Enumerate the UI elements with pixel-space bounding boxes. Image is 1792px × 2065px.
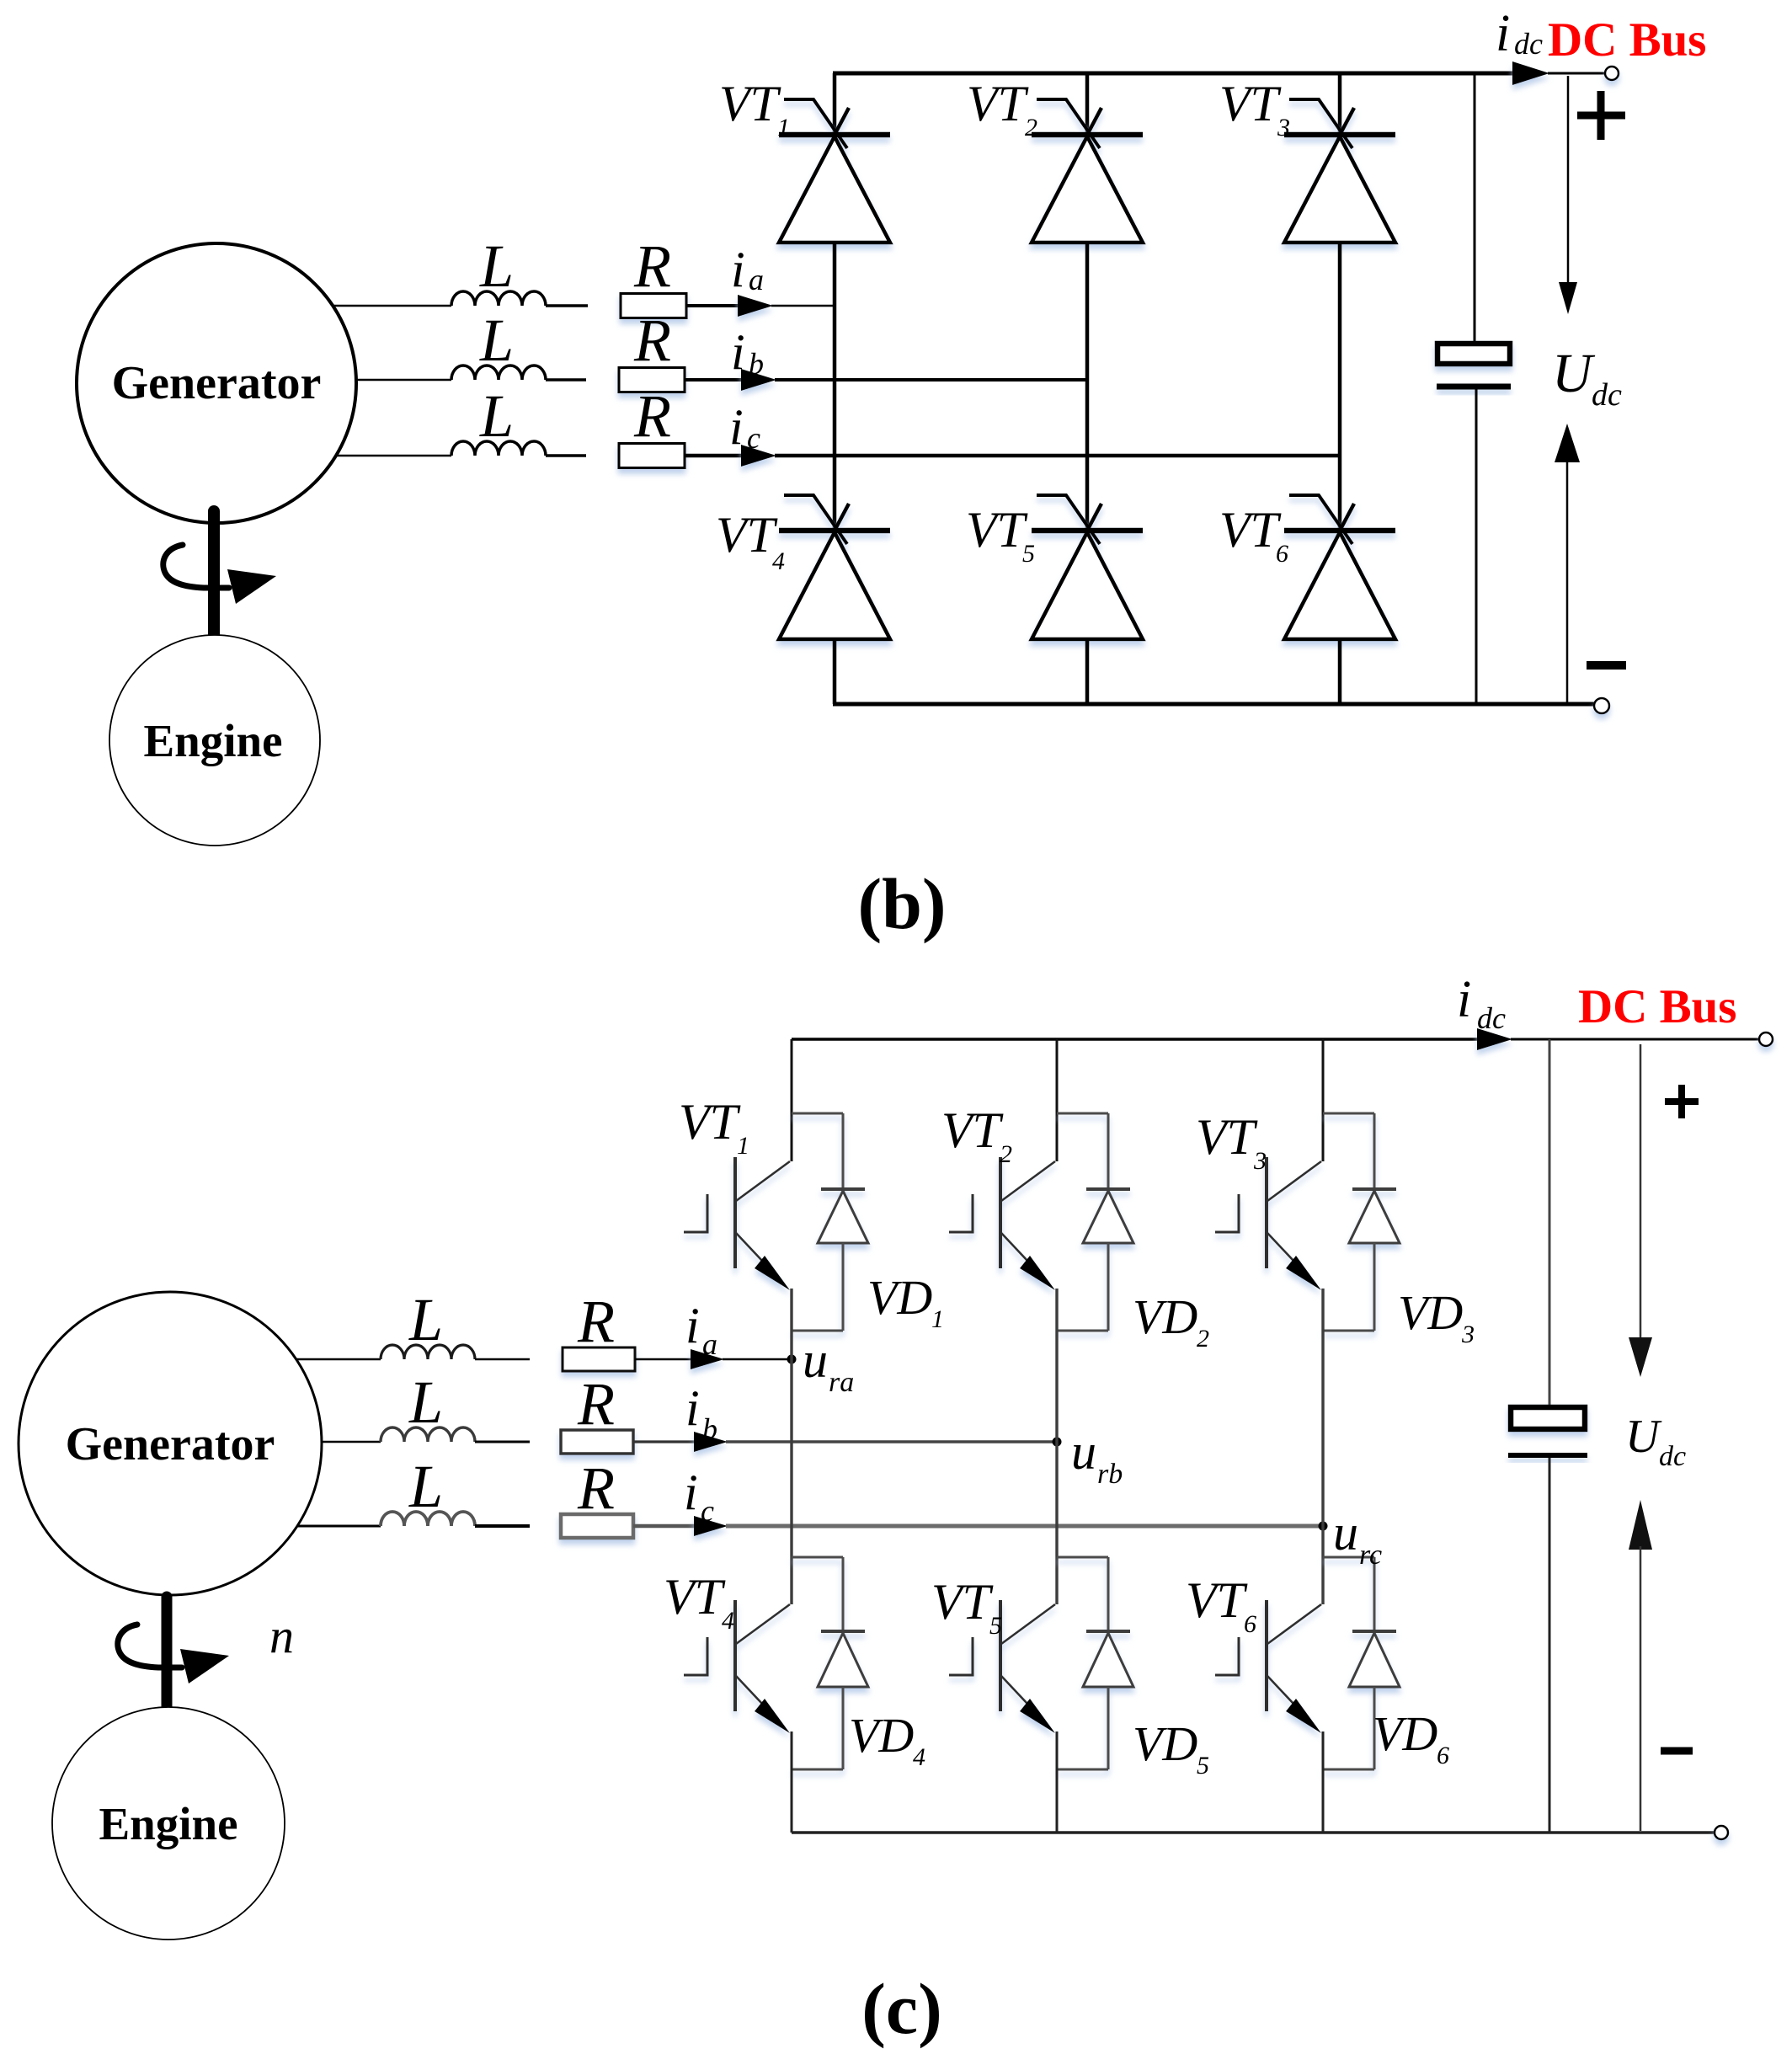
inductor L (b) phase c — [451, 441, 546, 456]
wire (b) phase a from generator to inductor — [295, 305, 451, 307]
wire (b) phase b from generator to inductor — [295, 379, 451, 382]
svg-text:c: c — [747, 421, 760, 455]
bridge leg 3 lower wire (b) — [1338, 639, 1342, 704]
svg-text:VT: VT — [967, 76, 1029, 131]
svg-text:u: u — [1071, 1424, 1096, 1480]
svg-text:1: 1 — [777, 114, 790, 141]
svg-text:Engine: Engine — [99, 1798, 237, 1849]
engine E (c) circle — [52, 1707, 285, 1940]
current arrow i_a (c) — [691, 1349, 724, 1369]
svg-text:DC Bus: DC Bus — [1548, 13, 1706, 67]
svg-text:5: 5 — [1022, 540, 1035, 568]
inductor L (b) phase a — [451, 291, 546, 306]
inductor L (c) phase a — [381, 1345, 475, 1359]
node u_ra (c) — [787, 1355, 797, 1364]
svg-text:U: U — [1552, 343, 1596, 404]
svg-text:VT: VT — [1219, 76, 1282, 131]
bridge leg 3 wire node to lower cell (c) — [1321, 1526, 1324, 1604]
wire (b) phase a to bridge leg 1 — [771, 305, 835, 307]
svg-text:VD: VD — [1133, 1716, 1197, 1771]
current arrow i_b (c) — [694, 1432, 728, 1452]
svg-text:VT: VT — [1219, 502, 1282, 558]
resistor R (c) phase a — [563, 1347, 635, 1371]
bridge leg 3 wire emitter to node (c) — [1321, 1289, 1324, 1526]
svg-text:(c): (c) — [861, 1968, 941, 2049]
wire (c) phase b from generator to inductor — [291, 1441, 381, 1443]
inductor L (c) phase b — [381, 1427, 475, 1442]
rotation arrow (b) — [163, 545, 229, 588]
wire (b) phase a resistor to arrow — [686, 304, 741, 307]
IGBT VT4 with diode VD4 (c) — [684, 1557, 868, 1769]
svg-text:a: a — [702, 1327, 717, 1361]
bridge leg 2 wire node to lower cell (c) — [1055, 1442, 1058, 1604]
svg-text:b: b — [749, 347, 764, 381]
top bus thin segment to terminal (c) — [1511, 1038, 1759, 1041]
svg-text:dc: dc — [1477, 1001, 1506, 1035]
capacitor C (b) top plate — [1437, 344, 1510, 364]
svg-text:VT: VT — [719, 76, 781, 131]
svg-text:1: 1 — [737, 1132, 749, 1160]
current arrow i_a (b) — [738, 295, 773, 317]
wire (c) phase a to node u_ra — [723, 1358, 792, 1361]
thyristor VT4 (b) — [779, 495, 890, 639]
svg-text:6: 6 — [1437, 1742, 1449, 1769]
plus sign (c) — [1665, 1098, 1699, 1105]
positive DC terminal (b) — [1605, 67, 1619, 80]
svg-text:Engine: Engine — [143, 715, 282, 766]
resistor R (c) phase c — [561, 1514, 633, 1538]
negative DC terminal (c) — [1715, 1826, 1728, 1839]
generator G (b) circle — [77, 243, 356, 523]
svg-text:3: 3 — [1461, 1321, 1475, 1348]
svg-text:L: L — [479, 307, 514, 374]
svg-text:5: 5 — [989, 1612, 1002, 1640]
svg-text:c: c — [701, 1494, 714, 1528]
svg-text:i: i — [1496, 5, 1510, 62]
bottom DC bus (c) — [792, 1831, 1715, 1834]
wire (b) phase b resistor to arrow — [685, 378, 744, 382]
wire (c) phase b resistor to arrow — [633, 1440, 694, 1443]
Udc arrow up head (b) — [1555, 424, 1580, 462]
plus sign (b) — [1577, 112, 1625, 120]
svg-text:i: i — [731, 324, 745, 380]
resistor R (b) phase a — [621, 294, 686, 318]
minus sign (b) — [1587, 661, 1626, 670]
svg-text:5: 5 — [1197, 1752, 1209, 1780]
negative DC terminal (b) — [1594, 698, 1609, 713]
wire (c) phase b to node u_rb — [726, 1440, 1057, 1443]
resistor R (c) phase b — [561, 1430, 633, 1454]
svg-text:VD: VD — [1398, 1285, 1463, 1340]
svg-text:4: 4 — [913, 1743, 925, 1771]
svg-text:i: i — [729, 399, 744, 455]
svg-text:R: R — [577, 1288, 615, 1355]
wire (c) phase c inductor to resistor — [475, 1524, 530, 1528]
capacitor wire top (b) — [1474, 73, 1476, 344]
thyristor VT6 (b) — [1284, 495, 1395, 639]
capacitor C (c) bottom plate — [1508, 1453, 1587, 1458]
bridge leg 2 upper wire (b) — [1085, 73, 1090, 135]
svg-text:Generator: Generator — [112, 357, 322, 409]
inductor L (c) phase c — [381, 1512, 475, 1526]
Udc arrow up line (c) — [1640, 1546, 1642, 1831]
bridge leg 2 wire emitter to node (c) — [1055, 1289, 1058, 1442]
svg-text:rc: rc — [1359, 1539, 1382, 1571]
svg-text:DC Bus: DC Bus — [1578, 980, 1736, 1033]
bridge leg 3 middle wire (b) — [1338, 243, 1342, 531]
svg-text:i: i — [1457, 971, 1471, 1028]
wire (c) phase a resistor to arrow — [635, 1358, 691, 1361]
svg-text:4: 4 — [772, 547, 785, 575]
bridge leg 3 upper wire (c) — [1322, 1039, 1325, 1161]
svg-text:VD: VD — [849, 1708, 914, 1763]
generator G (c) circle — [19, 1292, 322, 1595]
IGBT VT3 with diode VD3 (c) — [1215, 1113, 1400, 1331]
svg-text:VT: VT — [941, 1102, 1004, 1158]
svg-text:6: 6 — [1244, 1610, 1256, 1638]
svg-text:2: 2 — [1025, 114, 1037, 141]
rotation arrow (c) — [118, 1625, 182, 1667]
svg-text:1: 1 — [931, 1305, 944, 1333]
svg-text:VD: VD — [867, 1270, 932, 1325]
wire (c) phase c resistor to arrow — [633, 1524, 694, 1529]
thyristor VT3 (b) — [1284, 99, 1395, 243]
shaft (c) — [162, 1597, 173, 1709]
bridge leg 1 upper wire (c) — [791, 1039, 793, 1161]
bridge leg 1 wire emitter to node (c) — [790, 1289, 792, 1359]
current arrow i_c (b) — [741, 445, 776, 467]
Udc arrow down head (c) — [1629, 1337, 1652, 1377]
engine E (b) circle — [109, 635, 320, 846]
inductor L (b) phase b — [451, 366, 546, 380]
Udc arrow down line (b) — [1567, 76, 1570, 286]
capacitor C (c) top plate — [1511, 1407, 1585, 1429]
capacitor wire bottom (b) — [1475, 389, 1478, 704]
top DC bus (b) — [833, 72, 1516, 76]
thyristor VT5 (b) — [1032, 495, 1143, 639]
svg-text:VT: VT — [679, 1094, 741, 1150]
svg-text:3: 3 — [1253, 1147, 1267, 1175]
wire (b) phase c to bridge leg 3 — [775, 454, 1340, 458]
current arrow i_b (b) — [741, 369, 776, 391]
svg-text:i: i — [731, 242, 745, 297]
IGBT VT1 with diode VD1 (c) — [684, 1113, 868, 1331]
bridge leg 3 lower wire to bottom bus (c) — [1322, 1732, 1325, 1833]
svg-text:R: R — [633, 232, 671, 300]
bridge leg 3 upper wire (b) — [1338, 73, 1342, 135]
minus sign (c) — [1661, 1748, 1693, 1755]
svg-text:Generator: Generator — [66, 1418, 275, 1470]
svg-text:R: R — [577, 1454, 615, 1522]
svg-text:dc: dc — [1592, 377, 1622, 413]
bridge leg 2 middle wire (b) — [1085, 243, 1090, 531]
Udc arrow down line (c) — [1640, 1044, 1642, 1341]
svg-text:VT: VT — [931, 1574, 994, 1630]
wire (b) phase b to bridge leg 2 — [775, 378, 1087, 382]
bridge leg 1 middle wire (b) — [833, 243, 837, 531]
bridge leg 1 lower wire (b) — [833, 639, 837, 704]
svg-text:4: 4 — [722, 1607, 734, 1635]
resistor R (b) phase c — [619, 444, 685, 468]
Udc arrow down head (b) — [1559, 282, 1577, 314]
positive DC terminal (c) — [1759, 1032, 1773, 1046]
svg-text:rb: rb — [1097, 1459, 1123, 1490]
wire (c) phase b inductor to resistor — [475, 1441, 530, 1443]
svg-text:L: L — [479, 232, 514, 300]
svg-text:R: R — [633, 382, 671, 450]
svg-text:R: R — [633, 307, 671, 374]
svg-text:2: 2 — [1000, 1140, 1012, 1168]
resistor R (b) phase b — [619, 368, 685, 392]
svg-text:VT: VT — [1196, 1109, 1258, 1165]
wire (b) phase c from generator to inductor — [295, 455, 451, 457]
svg-text:VT: VT — [716, 507, 778, 563]
svg-text:VT: VT — [664, 1569, 726, 1625]
bridge leg 1 upper wire (b) — [833, 73, 837, 135]
svg-text:n: n — [269, 1609, 294, 1663]
svg-text:VD: VD — [1133, 1289, 1197, 1344]
i_dc arrowhead on top bus (b) — [1512, 61, 1549, 85]
capacitor wire top (c) — [1549, 1039, 1551, 1407]
bridge leg 2 lower wire (b) — [1085, 639, 1090, 704]
svg-text:L: L — [408, 1286, 443, 1353]
bridge leg 2 lower wire to bottom bus (c) — [1056, 1732, 1059, 1833]
svg-text:L: L — [408, 1369, 443, 1436]
capacitor C (b) bottom plate — [1437, 384, 1511, 390]
wire (c) phase a from generator to inductor — [291, 1358, 381, 1361]
svg-text:VT: VT — [966, 502, 1028, 558]
svg-text:dc: dc — [1514, 27, 1543, 61]
svg-text:VD: VD — [1373, 1706, 1437, 1761]
thyristor VT2 (b) — [1032, 99, 1143, 243]
Udc arrow up line (b) — [1566, 460, 1569, 702]
svg-text:(b): (b) — [857, 863, 946, 944]
IGBT VT5 with diode VD5 (c) — [949, 1557, 1133, 1769]
bridge leg 2 upper wire (c) — [1056, 1039, 1059, 1161]
wire (b) phase c resistor to arrow — [685, 454, 744, 458]
capacitor wire bottom (c) — [1549, 1458, 1551, 1833]
svg-text:U: U — [1625, 1411, 1662, 1463]
IGBT VT2 with diode VD2 (c) — [949, 1113, 1133, 1331]
i_dc arrowhead on top bus (c) — [1477, 1028, 1512, 1050]
top DC bus (c) — [792, 1038, 1479, 1041]
svg-text:u: u — [1333, 1505, 1358, 1561]
svg-text:b: b — [702, 1412, 717, 1446]
svg-text:ra: ra — [829, 1367, 854, 1398]
svg-text:a: a — [749, 263, 764, 296]
wire (c) phase a inductor to resistor — [475, 1358, 530, 1361]
svg-text:VT: VT — [1186, 1572, 1248, 1628]
bridge leg 1 wire node to lower cell (c) — [790, 1359, 792, 1604]
wire (b) phase b inductor to resistor — [546, 378, 586, 382]
svg-text:L: L — [408, 1453, 443, 1520]
node u_rb (c) — [1053, 1438, 1062, 1447]
IGBT VT6 with diode VD6 (c) — [1215, 1557, 1400, 1769]
svg-text:6: 6 — [1276, 540, 1288, 568]
bridge leg 1 lower wire to bottom bus (c) — [791, 1732, 793, 1833]
svg-text:i: i — [684, 1465, 698, 1520]
top bus thin segment to terminal (b) — [1548, 72, 1605, 75]
svg-text:2: 2 — [1197, 1325, 1209, 1353]
svg-text:L: L — [479, 382, 514, 450]
wire (b) phase c inductor to resistor — [546, 454, 586, 457]
wire (c) phase c from generator to inductor — [291, 1525, 381, 1528]
wire (c) phase c to node u_rc — [726, 1524, 1323, 1529]
Udc arrow up head (c) — [1629, 1500, 1652, 1550]
wire (b) phase a inductor to resistor — [546, 304, 588, 307]
svg-text:i: i — [685, 1298, 700, 1353]
bottom DC bus (b) — [833, 702, 1594, 707]
shaft (b) — [208, 511, 220, 639]
current arrow i_c (c) — [694, 1516, 728, 1536]
svg-text:i: i — [685, 1380, 700, 1436]
svg-text:R: R — [577, 1370, 615, 1438]
svg-text:dc: dc — [1659, 1441, 1686, 1472]
node u_rc (c) — [1319, 1522, 1328, 1531]
svg-text:3: 3 — [1277, 114, 1290, 141]
thyristor VT1 (b) — [779, 99, 890, 243]
svg-text:u: u — [803, 1332, 828, 1388]
